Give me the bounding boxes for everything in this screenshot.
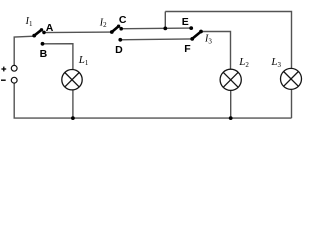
node B <box>41 42 45 46</box>
lamp L1 <box>62 70 82 90</box>
label - <box>1 79 6 81</box>
junction node L1 bottom <box>71 116 75 120</box>
svg-text:B: B <box>40 48 48 60</box>
switch I3 blade <box>193 30 203 39</box>
svg-text:A: A <box>46 22 54 34</box>
battery terminal - <box>11 77 17 83</box>
node E <box>189 26 193 30</box>
lamp L3 <box>281 68 302 89</box>
junction node on C-E wire <box>163 27 167 31</box>
svg-text:C: C <box>119 14 127 26</box>
node A <box>42 31 46 35</box>
svg-text:F: F <box>184 43 191 55</box>
wire C to E <box>121 27 191 30</box>
wire lamp L1 to bottom rail <box>72 90 74 118</box>
wire lamp L2 to bottom rail <box>230 90 232 118</box>
svg-text:E: E <box>182 16 189 28</box>
node C <box>119 27 123 31</box>
wire B to lamp L1 <box>43 44 73 70</box>
wire battery bottom vertical <box>13 83 15 118</box>
wire junction up from C-E wire <box>164 12 166 29</box>
lamp L2 <box>220 69 241 90</box>
junction node L2 bottom <box>229 116 233 120</box>
node F <box>190 37 194 41</box>
label + <box>1 67 6 72</box>
node D <box>118 38 122 42</box>
switch I2 blade <box>110 25 120 34</box>
wire bottom rail <box>14 117 292 119</box>
wire top rail with corner down to lamp L3 <box>165 12 291 69</box>
wire A to I2 pivot <box>44 31 112 34</box>
wire D to F <box>120 38 192 41</box>
wire I3 pivot to corner down to lamp L2 <box>201 31 231 69</box>
wire battery top vertical <box>14 36 34 65</box>
switch I1 blade <box>32 28 43 37</box>
battery terminal + <box>11 65 17 71</box>
svg-text:D: D <box>115 44 123 56</box>
wire lamp L3 to bottom rail <box>291 89 293 118</box>
